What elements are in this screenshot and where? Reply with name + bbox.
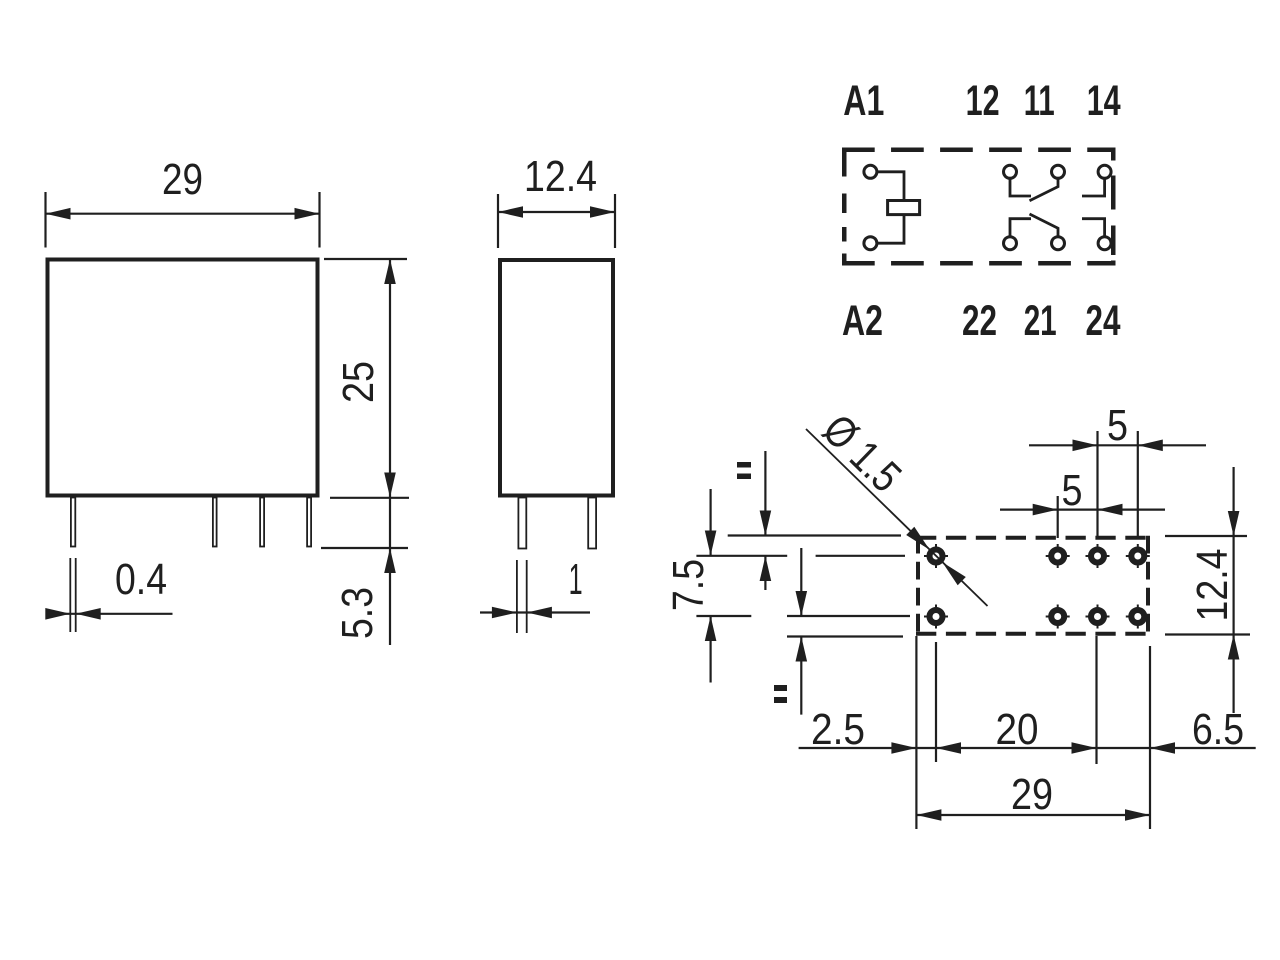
svg-text:2.5: 2.5	[811, 705, 865, 754]
svg-text:11: 11	[1024, 77, 1055, 125]
svg-text:1: 1	[569, 555, 583, 604]
svg-text:12: 12	[966, 77, 1000, 125]
svg-text:7.5: 7.5	[664, 559, 713, 611]
svg-text:12.4: 12.4	[1188, 549, 1237, 622]
svg-text:0.4: 0.4	[115, 555, 167, 604]
svg-text:20: 20	[996, 705, 1039, 754]
svg-text:24: 24	[1086, 297, 1121, 345]
svg-text:29: 29	[162, 155, 203, 204]
svg-text:5.3: 5.3	[333, 587, 382, 639]
svg-text:14: 14	[1087, 77, 1121, 125]
svg-text:29: 29	[1011, 770, 1053, 819]
svg-text:12.4: 12.4	[524, 152, 597, 201]
svg-text:A1: A1	[843, 77, 884, 125]
svg-text:A2: A2	[842, 297, 883, 345]
svg-text:25: 25	[334, 361, 383, 403]
svg-text:21: 21	[1024, 297, 1057, 345]
svg-text:6.5: 6.5	[1192, 705, 1244, 754]
svg-text:22: 22	[962, 297, 997, 345]
svg-text:5: 5	[1062, 466, 1083, 515]
svg-text:5: 5	[1107, 401, 1128, 450]
